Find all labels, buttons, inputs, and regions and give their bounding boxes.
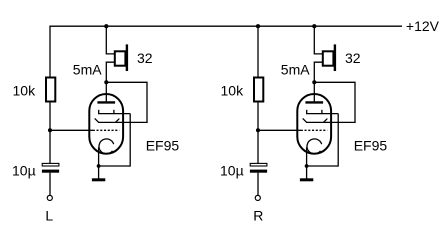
resistor R2 10k <box>254 78 263 102</box>
capacitor C2 10u negative plate <box>250 170 267 173</box>
wire: junction to tube V1 grid g1 <box>50 129 90 131</box>
ground symbol <box>300 178 313 181</box>
wire: rail to speaker LS2 top terminal <box>314 26 322 54</box>
node: anode junction dot <box>312 80 316 84</box>
svg-text:32: 32 <box>345 50 361 66</box>
svg-text:EF95: EF95 <box>354 138 388 154</box>
svg-text:10µ: 10µ <box>12 163 36 179</box>
resistor R1 10k <box>46 78 55 102</box>
wire: speaker LS2 bottom terminal to anode node <box>314 62 322 82</box>
capacitor C1 10u positive plate <box>42 163 59 166</box>
wire: anode node down to tube V2 anode <box>313 82 315 103</box>
loudspeaker LS1 diaphragm bar <box>126 44 128 71</box>
ground symbol <box>92 178 105 181</box>
tube V1 cathode <box>99 139 114 154</box>
loudspeaker LS2 body (square) <box>323 51 334 65</box>
tube V1 screen grid g2 <box>98 121 116 123</box>
wire: +12V rail drop to resistor R1 top <box>49 26 51 78</box>
tube V2 suppressor grid g3 <box>306 113 338 115</box>
svg-text:L: L <box>45 208 53 224</box>
wire: rail to speaker LS1 top terminal <box>106 26 114 54</box>
svg-text:R: R <box>253 208 263 224</box>
wire: resistor R1 bottom to capacitor C1 top <box>49 102 51 165</box>
node on +12V rail: speaker branch dot <box>312 24 316 28</box>
tube V2 control grid g1 (dashed) <box>298 129 303 131</box>
wire: screen grid g2 lead out of envelope <box>116 121 148 123</box>
node: cathode junction dot <box>97 164 101 168</box>
node: junction R1/C1/grid dot <box>48 128 52 132</box>
svg-text:10k: 10k <box>13 83 37 99</box>
tube V2 screen grid g2 <box>306 121 324 123</box>
svg-text:10µ: 10µ <box>220 163 244 179</box>
wire: speaker LS1 bottom terminal to anode node <box>106 62 114 82</box>
wire: capacitor C2 to input terminal <box>257 173 259 196</box>
+12V supply rail <box>50 25 402 27</box>
wire: cathode lead down to ground <box>98 147 100 179</box>
svg-text:5mA: 5mA <box>281 62 310 78</box>
tube V1 suppressor grid g3 <box>98 113 130 115</box>
svg-text:32: 32 <box>137 50 153 66</box>
node: junction R2/C2/grid dot <box>256 128 260 132</box>
wire: capacitor C1 to input terminal <box>49 173 51 196</box>
wire: anode node to screen grid g2 (triode strap) <box>314 82 355 123</box>
wire: +12V rail drop to resistor R2 top <box>257 26 259 78</box>
input terminal L (open circle) <box>47 195 52 200</box>
wire: suppressor g3 strap to cathode <box>99 114 131 166</box>
tube V2 envelope <box>297 94 331 154</box>
wire: anode node down to tube V1 anode <box>105 82 107 103</box>
svg-text:EF95: EF95 <box>146 138 180 154</box>
tube V1 control grid g1 (dashed) <box>90 129 95 131</box>
tube V1 anode plate bar <box>97 101 115 103</box>
loudspeaker LS1 body (square) <box>115 51 126 65</box>
node on +12V rail: right channel resistor branch dot <box>256 24 260 28</box>
capacitor C1 10u negative plate <box>42 170 59 173</box>
wire: junction to tube V2 grid g1 <box>258 129 298 131</box>
tube V2 cathode <box>307 139 322 154</box>
wire: resistor R2 bottom to capacitor C2 top <box>257 102 259 165</box>
wire: suppressor g3 strap to cathode <box>307 114 339 166</box>
wire: cathode lead down to ground <box>306 147 308 179</box>
node: cathode junction dot <box>305 164 309 168</box>
capacitor C2 10u positive plate <box>250 163 267 166</box>
node: anode junction dot <box>104 80 108 84</box>
tube V2 anode plate bar <box>305 101 323 103</box>
svg-text:5mA: 5mA <box>73 62 102 78</box>
wire: screen grid g2 lead out of envelope <box>324 121 356 123</box>
tube V1 envelope <box>89 94 123 154</box>
wire: anode node to screen grid g2 (triode strap) <box>106 82 147 123</box>
svg-text:+12V: +12V <box>406 18 440 34</box>
input terminal R (open circle) <box>255 195 260 200</box>
svg-text:10k: 10k <box>221 83 245 99</box>
node on +12V rail: speaker branch dot <box>104 24 108 28</box>
loudspeaker LS2 diaphragm bar <box>334 44 336 71</box>
